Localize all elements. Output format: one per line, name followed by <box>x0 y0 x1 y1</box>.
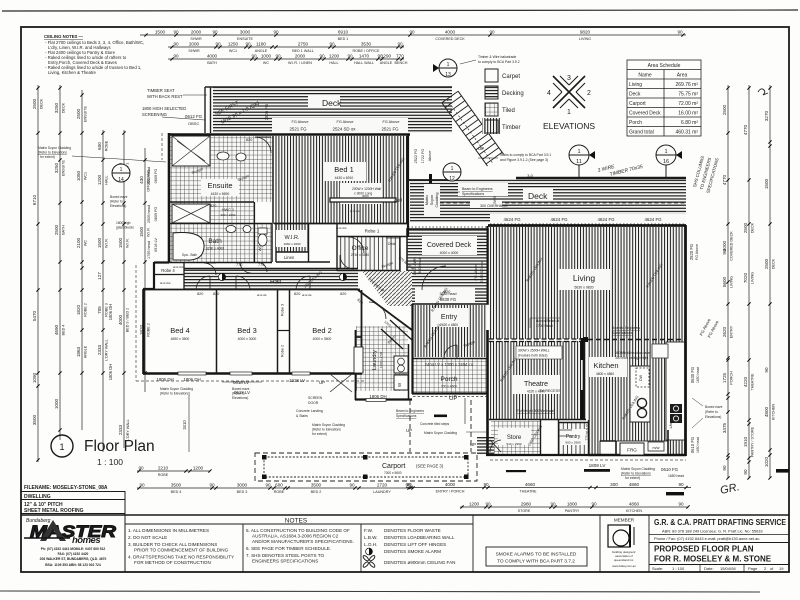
svg-text:4770: 4770 <box>722 174 727 185</box>
boxed beam note living <box>536 319 559 328</box>
matrix cladding note south <box>312 423 345 436</box>
svg-text:THEATRE: THEATRE <box>751 373 755 390</box>
svg-text:4220: 4220 <box>743 376 748 387</box>
svg-text:1910: 1910 <box>743 436 748 447</box>
svg-text:FILENAME: MOSELEY-STONE_08A: FILENAME: MOSELEY-STONE_08A <box>24 485 108 491</box>
svg-text:1725: 1725 <box>722 372 727 383</box>
bottom dimension row bedrooms <box>137 487 414 489</box>
svg-text:ANGLE: ANGLE <box>380 61 393 65</box>
svg-text:770: 770 <box>258 263 264 267</box>
svg-text:90: 90 <box>406 482 412 487</box>
right dimension column c <box>769 85 771 478</box>
title block outer lines <box>21 514 789 516</box>
svg-text:2. DO NOT SCALE: 2. DO NOT SCALE <box>128 535 167 540</box>
beam to engineers porch note <box>396 409 424 418</box>
top dimension row 3 <box>168 58 404 60</box>
robe1/office walls <box>337 224 408 271</box>
svg-text:Deck: Deck <box>629 92 641 98</box>
wc west wall <box>254 202 256 262</box>
svg-text:ROBE 2: ROBE 2 <box>84 303 88 317</box>
hall-to-entry diagonal zone <box>362 271 412 306</box>
svg-text:2522 FG: 2522 FG <box>414 149 418 164</box>
office hatched light <box>338 237 400 271</box>
svg-text:3250: 3250 <box>54 162 59 173</box>
kitchen beam dashed <box>588 339 686 341</box>
svg-text:ANGLE: ANGLE <box>84 345 88 358</box>
svg-text:Floor Plan: Floor Plan <box>84 438 155 455</box>
svg-text:Store: Store <box>507 435 522 441</box>
svg-text:2506 FG: 2506 FG <box>264 104 269 120</box>
svg-text:15/04/08: 15/04/08 <box>720 566 736 571</box>
svg-text:LAUNDRY: LAUNDRY <box>373 490 391 494</box>
svg-text:Matrix Scyon Cladding: Matrix Scyon Cladding <box>424 431 457 435</box>
svg-text:and Figure 3.9.1.2 (See page 3: and Figure 3.9.1.2 (See page 3) <box>500 158 548 162</box>
svg-text:1090: 1090 <box>32 372 37 383</box>
left dimension column 6 <box>144 148 146 392</box>
svg-text:7000 x 9600: 7000 x 9600 <box>384 471 402 475</box>
svg-text:DW: DW <box>639 374 643 381</box>
svg-text:820: 820 <box>340 292 346 296</box>
svg-text:5600: 5600 <box>722 276 727 287</box>
svg-text:CEILING NOTES —: CEILING NOTES — <box>44 34 84 39</box>
pantry walls <box>559 420 589 455</box>
svg-text:L.O.H.: L.O.H. <box>364 542 377 547</box>
svg-text:3500: 3500 <box>32 414 37 425</box>
svg-text:Scyon: Scyon <box>430 195 434 206</box>
spa bath <box>173 233 204 261</box>
porch tiled floor <box>413 359 487 393</box>
laundry north diagonal wall <box>358 290 412 330</box>
svg-text:Ph: (07) 4152 4441 MOBILE:: Ph: (07) 4152 4441 MOBILE: 0407 600 512 <box>41 547 106 551</box>
svg-text:1050: 1050 <box>76 170 81 181</box>
laundry tiled floor <box>356 326 408 391</box>
kitchen island DW and sink <box>636 368 649 387</box>
svg-text:MEMBER: MEMBER <box>614 518 635 523</box>
entry/porch divider <box>413 358 488 360</box>
svg-text:Grand total: Grand total <box>629 130 654 136</box>
svg-text:Matrix: Matrix <box>425 195 429 205</box>
svg-text:ENSUITE: ENSUITE <box>84 105 88 122</box>
svg-text:4800: 4800 <box>764 406 769 417</box>
svg-text:Matrix Scyon Cladding: Matrix Scyon Cladding <box>621 467 655 471</box>
svg-text:Porch: Porch <box>629 120 642 126</box>
svg-text:Specifications: Specifications <box>462 192 484 196</box>
kitchen bottom bench white <box>600 441 668 455</box>
svg-text:Carport: Carport <box>629 101 646 107</box>
svg-text:1800 HIGH SELECTED: 1800 HIGH SELECTED <box>142 106 186 111</box>
svg-text:2521 FG: 2521 FG <box>289 127 307 132</box>
svg-text:SCREEN: SCREEN <box>308 396 323 400</box>
svg-text:Timber: Timber <box>502 125 520 131</box>
bath/hall divider <box>169 262 272 264</box>
svg-text:HALL WALL: HALL WALL <box>354 61 374 65</box>
handwritten notes <box>214 100 741 497</box>
svg-text:Cladding: Cladding <box>435 193 439 208</box>
room label Covered Deck <box>427 242 472 255</box>
bed2 east wall <box>355 290 362 373</box>
svg-text:3290 x 4000: 3290 x 4000 <box>206 247 224 251</box>
svg-text:2333: 2333 <box>118 424 123 435</box>
svg-text:BED 2: BED 2 <box>311 490 322 494</box>
matrix scyon cladding note left <box>38 146 71 159</box>
svg-text:1470: 1470 <box>359 53 370 58</box>
svg-text:Office: Office <box>352 245 369 252</box>
svg-text:Elevations): Elevations) <box>232 396 248 400</box>
svg-text:W.I.R.: W.I.R. <box>285 235 300 241</box>
svg-text:(Refer to: (Refer to <box>705 410 718 414</box>
svg-text:6.80 m²: 6.80 m² <box>681 120 698 126</box>
svg-text:16.00 m²: 16.00 m² <box>678 111 698 117</box>
store tiled floor <box>491 421 540 454</box>
notes column dividers <box>242 524 244 572</box>
svg-text:820: 820 <box>213 292 219 296</box>
entry/porch west wall <box>411 304 413 394</box>
svg-text:Matrix Scyon Cladding: Matrix Scyon Cladding <box>312 423 345 427</box>
room label Bed 3 <box>237 326 257 341</box>
right deck hatched band <box>410 179 686 223</box>
svg-text:0830 FG: 0830 FG <box>440 297 456 302</box>
wc east wall <box>271 224 273 262</box>
bottom dimension row robe <box>137 470 210 472</box>
svg-text:0610 FG: 0610 FG <box>690 437 695 453</box>
bath tiled floor <box>169 224 254 262</box>
wc1 / shower2 tiled band <box>169 202 254 224</box>
svg-text:90: 90 <box>678 501 684 506</box>
door arcs bedrooms and rooms <box>196 137 501 452</box>
bed4 west wall <box>142 289 145 374</box>
room label Ensuite <box>207 181 232 196</box>
svg-text:1020: 1020 <box>764 456 769 467</box>
svg-text:1660 x 2660: 1660 x 2660 <box>283 242 300 246</box>
svg-text:Area: Area <box>677 73 688 79</box>
beam to engineers deck note <box>462 187 493 196</box>
top dimension row 2 <box>168 46 404 48</box>
left dimension column 4 <box>102 130 104 420</box>
svg-text:90: 90 <box>173 53 179 58</box>
svg-text:TO COMPLY WITH BCA PART 3.7.2: TO COMPLY WITH BCA PART 3.7.2 <box>497 559 575 565</box>
scale date page row <box>652 566 784 571</box>
svg-text:90: 90 <box>678 482 684 487</box>
svg-text:5630 x 9820: 5630 x 9820 <box>574 286 593 290</box>
svg-text:1650 head: 1650 head <box>668 474 684 478</box>
room label W.I.R. <box>283 235 300 246</box>
svg-text:W.I.R.: W.I.R. <box>126 238 130 248</box>
west jog robe4 to bed4 <box>143 262 169 289</box>
svg-text:4690: 4690 <box>54 324 59 335</box>
screening note <box>142 106 186 117</box>
svg-text:300 from ceiling height: 300 from ceiling height <box>615 356 648 360</box>
svg-text:0610 FG: 0610 FG <box>661 467 679 472</box>
svg-text:KITCHEN: KITCHEN <box>626 509 643 513</box>
svg-text:Bath: Bath <box>208 238 222 245</box>
smoke alarms box <box>486 547 587 566</box>
col4 extension ticks <box>102 420 104 452</box>
ensuite east wall <box>272 136 274 224</box>
svg-text:DENOTES LOADBEARING WALL: DENOTES LOADBEARING WALL <box>384 535 455 540</box>
stairs diagonal band at deck corner <box>442 91 504 166</box>
svg-text:2333: 2333 <box>97 344 102 355</box>
matrix scyon cladding note bottom <box>621 467 655 480</box>
svg-text:90: 90 <box>173 41 179 46</box>
right deck top edge <box>516 177 686 179</box>
svg-text:SMOKE ALARMS TO BE INSTALLED: SMOKE ALARMS TO BE INSTALLED <box>496 552 577 558</box>
room label Bed 4 <box>170 326 190 341</box>
black tick bar on deck edge <box>429 174 432 183</box>
svg-text:900 x 2360: 900 x 2360 <box>221 213 236 217</box>
820 door labels <box>197 138 450 305</box>
eave dashed outline <box>136 133 366 381</box>
svg-text:Stairs to comply to BCA Part 3: Stairs to comply to BCA Part 3.9.1 <box>500 153 551 157</box>
svg-text:BED 3: BED 3 <box>237 490 248 494</box>
svg-text:Bed 3: Bed 3 <box>237 326 257 335</box>
toilet wc <box>258 228 267 246</box>
theatre hatched floor <box>489 341 584 419</box>
svg-text:2404 LV x 1300 x 2404 LV: 2404 LV x 1300 x 2404 LV <box>425 362 474 367</box>
svg-text:DENOTES ø900mm CEILING FAN: DENOTES ø900mm CEILING FAN <box>384 560 455 565</box>
svg-text:72.00 m²: 72.00 m² <box>678 101 698 107</box>
living north wall <box>488 224 686 227</box>
svg-text:SHS: SHS <box>493 196 497 204</box>
svg-text:queensland inc.: queensland inc. <box>614 558 634 562</box>
svg-text:BED 4: BED 4 <box>62 325 66 336</box>
bed 1 hatched floor <box>275 136 408 223</box>
concrete landing note <box>296 409 323 418</box>
stairs top landing hatch <box>482 118 500 134</box>
svg-text:BED 3 / BED 2: BED 3 / BED 2 <box>126 308 130 332</box>
svg-text:6. SEE PAGE FOR TIMBER SC: 6. SEE PAGE FOR TIMBER SCHEDULE. <box>246 546 331 551</box>
w.i.r. hatched <box>276 224 308 252</box>
svg-text:1 : 100: 1 : 100 <box>672 566 685 571</box>
screen door note <box>308 396 323 405</box>
svg-text:4000 x 3000: 4000 x 3000 <box>238 337 257 341</box>
svg-text:Hall: Hall <box>270 279 282 286</box>
svg-text:ABN: 89 378 188 249 License: ABN: 89 378 188 249 Licensee: G. R. Prat… <box>662 529 763 534</box>
svg-text:& Stairs: & Stairs <box>296 414 308 418</box>
svg-text:SHEET METAL ROOFING: SHEET METAL ROOFING <box>24 508 84 514</box>
svg-text:TIMBER SEAT: TIMBER SEAT <box>147 88 175 93</box>
kitchen island white <box>630 366 650 422</box>
svg-text:HALL: HALL <box>105 175 109 184</box>
robe/bed2 wall <box>289 290 291 373</box>
stairs note <box>500 153 551 162</box>
laundry east wall <box>408 344 410 400</box>
svg-text:FG Above: FG Above <box>474 264 478 281</box>
svg-text:KITCHEN: KITCHEN <box>772 404 776 421</box>
svg-text:3835 head: 3835 head <box>440 292 457 296</box>
svg-text:1: 1 <box>577 149 580 155</box>
svg-text:Decking: Decking <box>502 91 524 97</box>
svg-text:UP: UP <box>478 146 484 151</box>
svg-text:Matrix Scyon Cladding: Matrix Scyon Cladding <box>160 387 193 391</box>
svg-text:Robe 1: Robe 1 <box>365 229 380 234</box>
svg-text:Bed 4: Bed 4 <box>170 326 190 335</box>
svg-text:1722 FG: 1722 FG <box>421 149 425 164</box>
svg-text:BATH: BATH <box>62 225 66 235</box>
pantry hatched <box>559 423 588 454</box>
svg-text:al.sl.ds.: al.sl.ds. <box>302 293 312 297</box>
svg-text:W.I.R. / LINEN: W.I.R. / LINEN <box>288 61 312 65</box>
area schedule table <box>627 60 701 136</box>
store east wall <box>540 420 542 455</box>
770 door labels <box>236 256 416 294</box>
carport posts <box>262 455 469 479</box>
svg-text:BED 1 WALL: BED 1 WALL <box>292 49 314 53</box>
pantry shelf marks <box>559 430 572 436</box>
svg-text:2: 2 <box>587 90 591 97</box>
svg-text:3000: 3000 <box>362 194 369 198</box>
notes column 3 abbreviations <box>364 528 455 565</box>
room label Entry <box>440 314 458 327</box>
svg-text:PANTRY: PANTRY <box>565 509 580 513</box>
svg-text:al.sl.ds.: al.sl.ds. <box>350 209 360 213</box>
svg-text:90: 90 <box>251 53 257 58</box>
svg-text:Covered Deck: Covered Deck <box>427 242 472 249</box>
bottom dimension row store/pantry/kitchen <box>460 506 688 508</box>
svg-text:(Refer to Elevations: (Refer to Elevations <box>38 151 67 155</box>
al.sl.drs labels <box>160 209 360 297</box>
svg-text:Robe 2: Robe 2 <box>281 345 285 357</box>
top dimension row 1 <box>140 34 686 36</box>
svg-text:1200: 1200 <box>329 53 340 58</box>
wc tiled strip <box>254 224 272 262</box>
svg-text:90: 90 <box>139 482 145 487</box>
svg-text:90: 90 <box>209 482 215 487</box>
svg-text:90: 90 <box>215 41 221 46</box>
elevations X symbol <box>553 76 585 108</box>
svg-text:1000: 1000 <box>261 53 272 58</box>
svg-text:4000: 4000 <box>445 29 456 34</box>
room label Porch <box>441 376 458 389</box>
svg-text:Boxed eave: Boxed eave <box>110 195 128 199</box>
store/pantry south wall <box>486 454 588 456</box>
west wall ensuite block <box>168 133 171 263</box>
svg-text:BENCH: BENCH <box>395 61 408 65</box>
hall south wall / bedroom north <box>143 289 360 291</box>
floor plan title <box>51 435 73 457</box>
svg-text:0609 FG: 0609 FG <box>154 207 158 222</box>
bed3/robe wall <box>277 290 279 373</box>
svg-text:Robe 3: Robe 3 <box>281 304 285 316</box>
bed1 south wall <box>274 223 408 225</box>
room label Bath <box>206 238 224 251</box>
svg-text:90: 90 <box>677 29 683 34</box>
room label Living <box>573 273 595 290</box>
svg-text:0630 FG: 0630 FG <box>690 367 695 383</box>
svg-text:700 x 4600: 700 x 4600 <box>441 385 457 389</box>
svg-text:Full height 300W nib wall: Full height 300W nib wall <box>517 409 555 413</box>
svg-text:960 head: 960 head <box>418 258 422 274</box>
window labels south <box>156 173 533 399</box>
svg-text:Laundry: Laundry <box>372 350 378 370</box>
svg-text:2520 FG: 2520 FG <box>689 244 694 260</box>
svg-text:ENGINEERS SPECIFICATIONS: ENGINEERS SPECIFICATIONS <box>252 559 318 564</box>
FRG box <box>620 443 644 455</box>
room label Office <box>351 245 369 257</box>
svg-text:3. BUILDER TO CHECK ALL DIMENS: 3. BUILDER TO CHECK ALL DIMENSIONS <box>128 542 217 547</box>
svg-text:0618 LV: 0618 LV <box>233 380 249 385</box>
svg-text:2524 SD ox: 2524 SD ox <box>333 127 357 132</box>
svg-text:al.sl.drs.: al.sl.drs. <box>160 281 171 285</box>
svg-text:4860: 4860 <box>629 501 640 506</box>
svg-text:600: 600 <box>275 482 283 487</box>
svg-text:DENOTES LIFT OFF HINGES: DENOTES LIFT OFF HINGES <box>384 542 446 547</box>
300W wall note theatre <box>516 346 562 359</box>
svg-text:1200: 1200 <box>97 174 102 185</box>
raked ceiling rotated labels <box>303 157 664 447</box>
svg-text:7020: 7020 <box>743 272 748 283</box>
svg-text:4624 FG: 4624 FG <box>550 217 568 222</box>
svg-text:2000: 2000 <box>191 29 202 34</box>
svg-text:homes: homes <box>72 535 100 546</box>
svg-text:2620: 2620 <box>722 326 727 337</box>
svg-text:W.I.R.: W.I.R. <box>147 227 151 237</box>
svg-text:Timber & Wire balustrade: Timber & Wire balustrade <box>478 55 516 59</box>
2505 head / 0609 FG labels <box>147 167 158 259</box>
svg-text:Elevations): Elevations) <box>705 415 721 419</box>
store side steps hatch <box>477 437 494 455</box>
svg-text:2980: 2980 <box>521 501 532 506</box>
deck overhang dashed line <box>440 202 686 204</box>
ensuite tiled floor <box>169 136 273 202</box>
svg-text:300: 300 <box>610 482 618 487</box>
svg-text:Boxed eave: Boxed eave <box>705 405 723 409</box>
svg-text:19: 19 <box>779 566 784 571</box>
dotted sill line <box>490 223 686 225</box>
svg-text:COVERED DECK: COVERED DECK <box>435 37 465 41</box>
svg-text:820: 820 <box>210 204 216 208</box>
svg-text:1806 DH: 1806 DH <box>183 377 200 382</box>
svg-text:4660: 4660 <box>525 482 536 487</box>
svg-text:al.sl.ds.: al.sl.ds. <box>257 293 267 297</box>
svg-text:4000 x 4000: 4000 x 4000 <box>440 251 459 255</box>
svg-text:TV RECESS: TV RECESS <box>539 389 561 393</box>
svg-text:4624 FG: 4624 FG <box>644 217 662 222</box>
svg-text:BED 4: BED 4 <box>171 490 182 494</box>
svg-text:430: 430 <box>139 176 144 184</box>
svg-text:4000: 4000 <box>118 314 123 325</box>
svg-text:0618 LV: 0618 LV <box>234 390 250 395</box>
svg-text:14: 14 <box>118 177 124 183</box>
svg-text:1863: 1863 <box>76 346 81 357</box>
svg-text:2500: 2500 <box>743 222 748 233</box>
robe divider <box>277 330 290 332</box>
shower 2 with cross <box>172 204 210 223</box>
kitchen south wall <box>588 454 686 457</box>
svg-text:STORE: STORE <box>518 509 531 513</box>
svg-text:DENOTES SMOKE ALARM: DENOTES SMOKE ALARM <box>384 549 441 554</box>
svg-text:3500: 3500 <box>171 482 182 487</box>
svg-text:2000: 2000 <box>295 53 306 58</box>
corner wall mark bottom right <box>776 469 789 473</box>
svg-text:90: 90 <box>764 367 769 373</box>
beam note kitchen top <box>612 326 640 335</box>
svg-text:705: 705 <box>97 306 102 314</box>
svg-text:90: 90 <box>489 29 495 34</box>
svg-text:L/bo: L/bo <box>669 422 673 429</box>
svg-text:W: W <box>397 382 402 387</box>
svg-text:SHWR: SHWR <box>188 49 200 53</box>
svg-text:Living: Living <box>629 82 642 88</box>
bed1 east / covered deck west wall <box>407 134 409 237</box>
m/w box <box>648 442 664 451</box>
svg-text:910 x 2960: 910 x 2960 <box>506 442 522 446</box>
svg-text:6910: 6910 <box>338 29 349 34</box>
svg-text:820: 820 <box>197 292 203 296</box>
svg-text:PANTRY / STORE: PANTRY / STORE <box>751 426 755 457</box>
svg-text:1: 1 <box>59 442 64 452</box>
svg-text:1809 LV: 1809 LV <box>589 463 607 468</box>
svg-text:770: 770 <box>396 53 404 58</box>
